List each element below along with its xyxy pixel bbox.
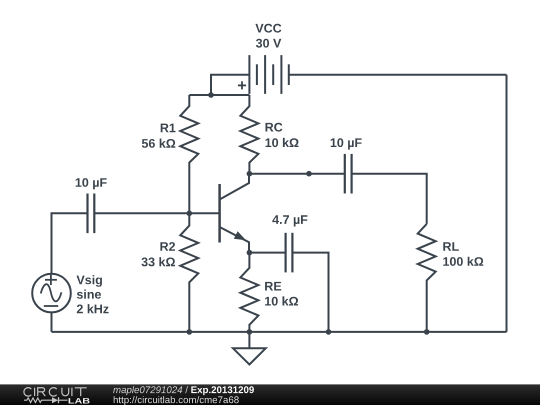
- resistor RL: [418, 224, 436, 332]
- logo CIRCUIT text: [24, 388, 87, 397]
- label RE: [265, 282, 281, 291]
- node wire joint on collector rail: [306, 171, 312, 177]
- label RC value 10 kOhm: [266, 138, 299, 147]
- battery V1 plate long 3: [280, 55, 282, 94]
- capacitor C1 10uF input left plate: [86, 194, 88, 234]
- resistor RC: [240, 95, 258, 174]
- capacitor C2 10uF output left plate: [344, 154, 346, 194]
- label C1 value 10 uF: [76, 178, 107, 189]
- source Vsig circle: [32, 274, 71, 313]
- footer credit maple07291024: [113, 386, 182, 395]
- node R2 bottom: [187, 329, 193, 335]
- label R1: [161, 124, 176, 133]
- node RL bottom: [424, 329, 430, 335]
- label RC: [266, 123, 283, 132]
- transistor Q1 base bar: [218, 184, 221, 243]
- node emitter junction: [247, 250, 253, 256]
- label R2 value 33 kOhm: [141, 257, 175, 266]
- battery V1 plate short 3: [288, 64, 290, 85]
- label C2 value 10 uF: [331, 138, 362, 149]
- wire output cap to RL: [352, 174, 427, 224]
- source Vsig plus sign: [45, 275, 57, 285]
- logo resistor squiggle: [24, 398, 52, 403]
- wire right side vertical: [506, 75, 508, 332]
- label R1 value 56 kOhm: [142, 139, 176, 148]
- label RE value 10 kOhm: [265, 296, 298, 305]
- resistor R2: [180, 213, 198, 332]
- wire bypass cap down to bottom rail: [292, 253, 328, 332]
- wire rail R1 to RC top: [189, 94, 249, 96]
- resistor R1: [180, 95, 198, 213]
- label RL value 100 kOhm: [443, 257, 483, 266]
- wire bottom rail: [52, 331, 507, 333]
- capacitor C3 4.7uF right plate: [291, 233, 293, 273]
- label RL: [443, 242, 459, 251]
- label sine: [77, 290, 101, 299]
- label VCC: [255, 24, 281, 33]
- label 30 V: [256, 39, 281, 48]
- source Vsig minus sign: [44, 305, 58, 307]
- node bypass branch bottom: [326, 329, 332, 335]
- footer url: [114, 396, 239, 405]
- logo LAB text: [69, 398, 90, 403]
- label R2: [160, 242, 175, 251]
- resistor RE: [240, 253, 258, 332]
- logo diode: [52, 397, 58, 403]
- node ground junction: [247, 329, 253, 335]
- wire input cap left to source: [52, 213, 88, 273]
- battery plus sign: [238, 81, 246, 89]
- battery V1 plate long 1: [248, 55, 250, 94]
- wire source bottom to rail: [51, 312, 53, 332]
- footer credit Exp.20131209: [191, 386, 254, 395]
- label Vsig: [77, 275, 103, 287]
- wire base rail: [94, 212, 219, 214]
- node collector junction: [247, 171, 253, 177]
- footer bar: [0, 384, 540, 405]
- ground: [233, 332, 266, 365]
- battery V1 plate short 1: [256, 64, 258, 85]
- wire collector node to output cap: [249, 173, 344, 175]
- transistor Q1 emitter lead: [220, 227, 249, 253]
- capacitor C3 4.7uF left plate: [285, 233, 287, 273]
- node junction stub to rail: [208, 92, 214, 98]
- footer credit slash: [185, 386, 188, 393]
- source Vsig sine symbol: [41, 284, 62, 301]
- transistor Q1 collector lead: [220, 174, 249, 200]
- label C3 value 4.7 uF: [272, 215, 307, 226]
- wire emitter to bypass cap: [249, 252, 285, 254]
- capacitor C1 10uF input right plate: [93, 194, 95, 234]
- wire battery negative to right corner: [289, 74, 507, 76]
- battery V1 plate long 2: [264, 55, 266, 94]
- wire battery positive stub: [211, 75, 249, 95]
- transistor Q1 emitter arrow: [234, 231, 246, 240]
- node base junction: [187, 211, 193, 217]
- label 2 kHz: [77, 304, 109, 313]
- capacitor C2 10uF output right plate: [351, 154, 353, 194]
- battery V1 plate short 2: [272, 64, 274, 85]
